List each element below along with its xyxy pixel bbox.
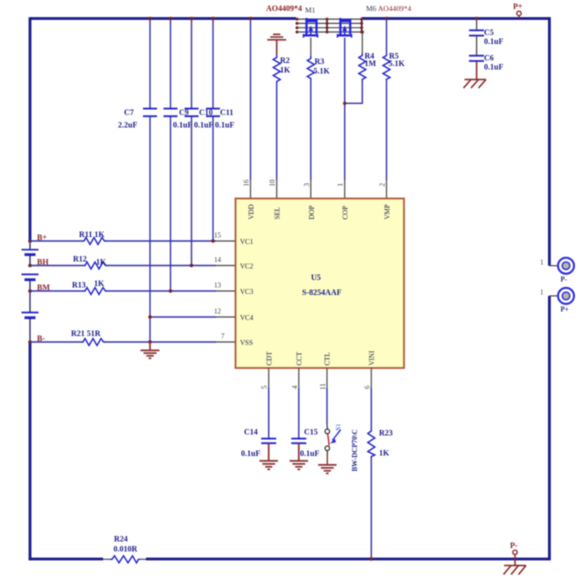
node junction R23/bottom rail [370, 557, 374, 561]
svg-text:14: 14 [214, 256, 222, 264]
wire R21 to pin 7 [106, 341, 217, 343]
resistor R23 1K [368, 429, 393, 459]
svg-text:P-: P- [561, 276, 568, 284]
resistor R11 1K [79, 230, 107, 245]
svg-text:R2: R2 [280, 56, 290, 65]
svg-text:1K: 1K [94, 279, 105, 288]
wire bottom rail left segment [29, 558, 103, 561]
wire left border bottom [29, 342, 32, 560]
svg-text:VC2: VC2 [240, 263, 254, 271]
svg-text:C15: C15 [304, 428, 318, 437]
svg-text:7: 7 [221, 333, 225, 341]
svg-text:1K: 1K [280, 66, 291, 75]
wire CTL to switch [326, 388, 328, 424]
svg-text:VMP: VMP [384, 204, 392, 219]
svg-text:R24: R24 [114, 535, 128, 544]
wire BH to VC2 [30, 265, 83, 267]
svg-text:4: 4 [291, 385, 299, 389]
svg-text:R11 1K: R11 1K [79, 230, 105, 239]
node junction C7col/VC4 [148, 315, 151, 318]
svg-text:2: 2 [379, 183, 387, 187]
svg-text:6: 6 [363, 385, 371, 389]
svg-text:R23: R23 [379, 429, 393, 438]
svg-text:5.1K: 5.1K [389, 59, 406, 68]
capacitor C10 [185, 108, 214, 130]
resistor R12 1K [73, 255, 108, 270]
wire B+ to VC1 [30, 240, 82, 242]
ground (chassis) below bottom rail at P- [504, 559, 527, 575]
node junction C9/VC3 [169, 289, 172, 292]
wire top rail left segment [30, 17, 296, 20]
pin 6 stub VINI [370, 368, 372, 388]
node junction R4 bus tap [361, 30, 364, 33]
svg-text:12: 12 [214, 308, 222, 316]
wire R11 to pin 15 [107, 240, 217, 242]
svg-text:C6: C6 [484, 53, 494, 62]
svg-text:CDT: CDT [266, 351, 274, 366]
wire R13 to pin 13 [108, 290, 217, 292]
capacitor C6 [469, 53, 503, 71]
wire VMP column x=386.5 [386, 81, 388, 180]
connector P- (top right) [540, 258, 574, 284]
wire switch to ground [326, 451, 328, 455]
svg-text:1: 1 [540, 289, 544, 297]
svg-text:16: 16 [243, 179, 251, 187]
wire B- to R21 [30, 341, 81, 343]
pin 5 stub CDT [268, 368, 270, 388]
wire DOP column x=310.8 [310, 80, 312, 180]
svg-text:P+: P+ [513, 2, 523, 11]
wire C5/C6 column x=476.6 [476, 19, 478, 31]
svg-text:C11: C11 [220, 108, 233, 117]
svg-text:VSS: VSS [240, 339, 253, 347]
pin 14 stub VC2 [216, 265, 236, 267]
node junction C10/VC2 [190, 264, 193, 267]
svg-text:COP: COP [342, 206, 350, 220]
svg-text:VC4: VC4 [240, 314, 254, 322]
capacitor C14 [241, 428, 276, 459]
resistor R21 51R [71, 329, 106, 346]
pin 15 stub VC1 [216, 240, 236, 242]
svg-text:R21 51R: R21 51R [71, 329, 101, 338]
ground (earth) below switch S1 [318, 465, 336, 474]
ground (earth, flipped up) above R2 [267, 34, 286, 54]
svg-text:1K: 1K [96, 258, 107, 267]
svg-text:C5: C5 [484, 28, 494, 37]
svg-text:0.1uF: 0.1uF [173, 121, 192, 130]
resistor R24 0.010R [103, 535, 146, 563]
switch S1 [325, 424, 342, 451]
wire M6 gate down to COP [344, 38, 346, 180]
pin 2 stub VMP [386, 180, 388, 199]
MOSFET bus: 4 parallel source/drain lines [296, 19, 362, 32]
svg-text:CTL: CTL [324, 352, 332, 365]
pin 7 stub VSS [216, 341, 236, 343]
svg-text:0.1uF: 0.1uF [194, 121, 213, 130]
svg-text:P-: P- [510, 541, 518, 550]
ground (earth) below VSS junction [141, 342, 160, 358]
capacitor C11 [206, 108, 234, 130]
transistor M1 (AO4409*4 p-channel) [304, 18, 318, 38]
svg-text:R3: R3 [315, 57, 325, 66]
svg-text:0.1uF: 0.1uF [484, 37, 503, 46]
wire R23 to bottom rail [370, 458, 372, 559]
node P+ flag top right [513, 2, 523, 19]
svg-text:VINI: VINI [368, 350, 376, 365]
capacitor C9 [164, 108, 193, 130]
svg-text:VC3: VC3 [240, 288, 254, 296]
svg-text:1M: 1M [365, 59, 377, 68]
pin 11 stub CTL [326, 368, 328, 388]
resistor R13 1K [72, 279, 108, 295]
svg-text:CCT: CCT [296, 351, 304, 365]
svg-text:10: 10 [269, 179, 277, 187]
node P- flag bottom [510, 541, 518, 559]
node bus mid tie x=327 [326, 18, 329, 34]
battery B1 (top cell) [22, 241, 39, 266]
svg-text:1: 1 [540, 259, 544, 267]
capacitor C7 [118, 108, 157, 130]
svg-text:M6 AO4409*4: M6 AO4409*4 [366, 4, 411, 13]
svg-text:S-8254AAF: S-8254AAF [302, 288, 342, 297]
wire right border lower segment [548, 296, 551, 560]
op-amp U5 body (S-8254AAF) [236, 199, 405, 369]
svg-text:0.010R: 0.010R [114, 545, 138, 554]
wire C11 column x=213 [212, 19, 214, 242]
svg-text:5.1K: 5.1K [314, 67, 331, 76]
svg-text:VC1: VC1 [240, 238, 254, 246]
wire C9 column x=170.5 [170, 19, 172, 292]
svg-text:M1: M1 [305, 5, 316, 14]
node bus left dots x=297 [296, 18, 299, 34]
capacitor C5 [469, 28, 503, 46]
svg-text:SEL: SEL [274, 207, 282, 219]
wire left border top (B+ rail) [29, 17, 32, 241]
svg-text:3: 3 [303, 183, 311, 187]
battery B2 (middle cell) [22, 274, 39, 291]
node junction C7col/VSS [148, 340, 151, 343]
capacitor C15 [291, 428, 319, 459]
wire C7 column x=150 [149, 19, 151, 343]
svg-text:1: 1 [337, 183, 345, 187]
svg-text:5: 5 [261, 385, 269, 389]
resistor R5 5.1K [383, 19, 406, 82]
connector P+ (lower right) [540, 288, 574, 314]
svg-text:0.1uF: 0.1uF [484, 62, 503, 71]
svg-text:R13: R13 [72, 281, 86, 290]
node bus right tie x=361.7 [360, 18, 363, 34]
battery B3 (bottom cell) [22, 291, 39, 342]
wire M1 gate to R3 [310, 38, 312, 56]
wire VINI to R23 [370, 388, 372, 429]
ground (chassis) below C6 [464, 61, 487, 88]
svg-text:0.1uF: 0.1uF [300, 449, 319, 458]
svg-text:VDD: VDD [248, 204, 256, 219]
wire top rail right segment [362, 17, 551, 20]
ground (earth) below C15 [290, 443, 308, 469]
wire right border upper segment [548, 17, 551, 266]
svg-text:U5: U5 [311, 273, 321, 282]
svg-text:S1: S1 [335, 424, 342, 431]
resistor R2 1K [273, 54, 291, 84]
pin 1 stub COP [344, 180, 346, 199]
svg-text:13: 13 [214, 282, 222, 290]
svg-text:0.1uF: 0.1uF [241, 449, 260, 458]
wire VDD column x=250.5 [250, 19, 252, 181]
node junction dots on top rail [148, 17, 478, 20]
wire VC4 from C7 column [150, 316, 216, 318]
svg-text:1K: 1K [379, 449, 390, 458]
node junction R4/COP [343, 102, 346, 105]
pin 3 stub DOP [310, 180, 312, 199]
wire CDT to C14 [268, 388, 270, 438]
pin 12 stub VC4 [216, 316, 236, 318]
svg-text:R12: R12 [73, 255, 87, 264]
wire between C5 and C6 [476, 36, 478, 56]
pin 16 stub VDD [250, 180, 252, 199]
node junction C11/VC1 [211, 239, 214, 242]
wire R4 bottom elbow to COP [345, 81, 363, 103]
svg-text:15: 15 [214, 232, 222, 240]
pin 10 stub SEL [276, 180, 278, 199]
wire R12 to pin 14 [108, 265, 217, 267]
svg-text:AO4409*4: AO4409*4 [266, 4, 302, 13]
svg-text:BW-DCP70\C: BW-DCP70\C [351, 429, 359, 471]
ground (earth) below C14 [260, 443, 278, 469]
pin 13 stub VC3 [216, 290, 236, 292]
wire bottom rail right segment [146, 558, 550, 561]
wire C10 column x=191.5 [191, 19, 193, 266]
svg-text:11: 11 [319, 383, 327, 390]
wire SEL column x=276.7 [276, 84, 278, 180]
transistor M6 (AO4409*4 p-channel) [338, 18, 352, 38]
svg-text:P+: P+ [561, 306, 569, 314]
resistor R3 5.1K [307, 56, 330, 80]
svg-text:C14: C14 [244, 428, 258, 437]
wire BM to VC3 [30, 290, 83, 292]
svg-text:DOP: DOP [308, 205, 316, 219]
wire CCT to C15 [298, 388, 300, 438]
resistor R4 1M [359, 32, 377, 81]
pin 4 stub CCT [298, 368, 300, 388]
svg-text:C7: C7 [124, 108, 134, 117]
svg-text:2.2uF: 2.2uF [118, 121, 137, 130]
svg-text:0.1uF: 0.1uF [215, 121, 234, 130]
